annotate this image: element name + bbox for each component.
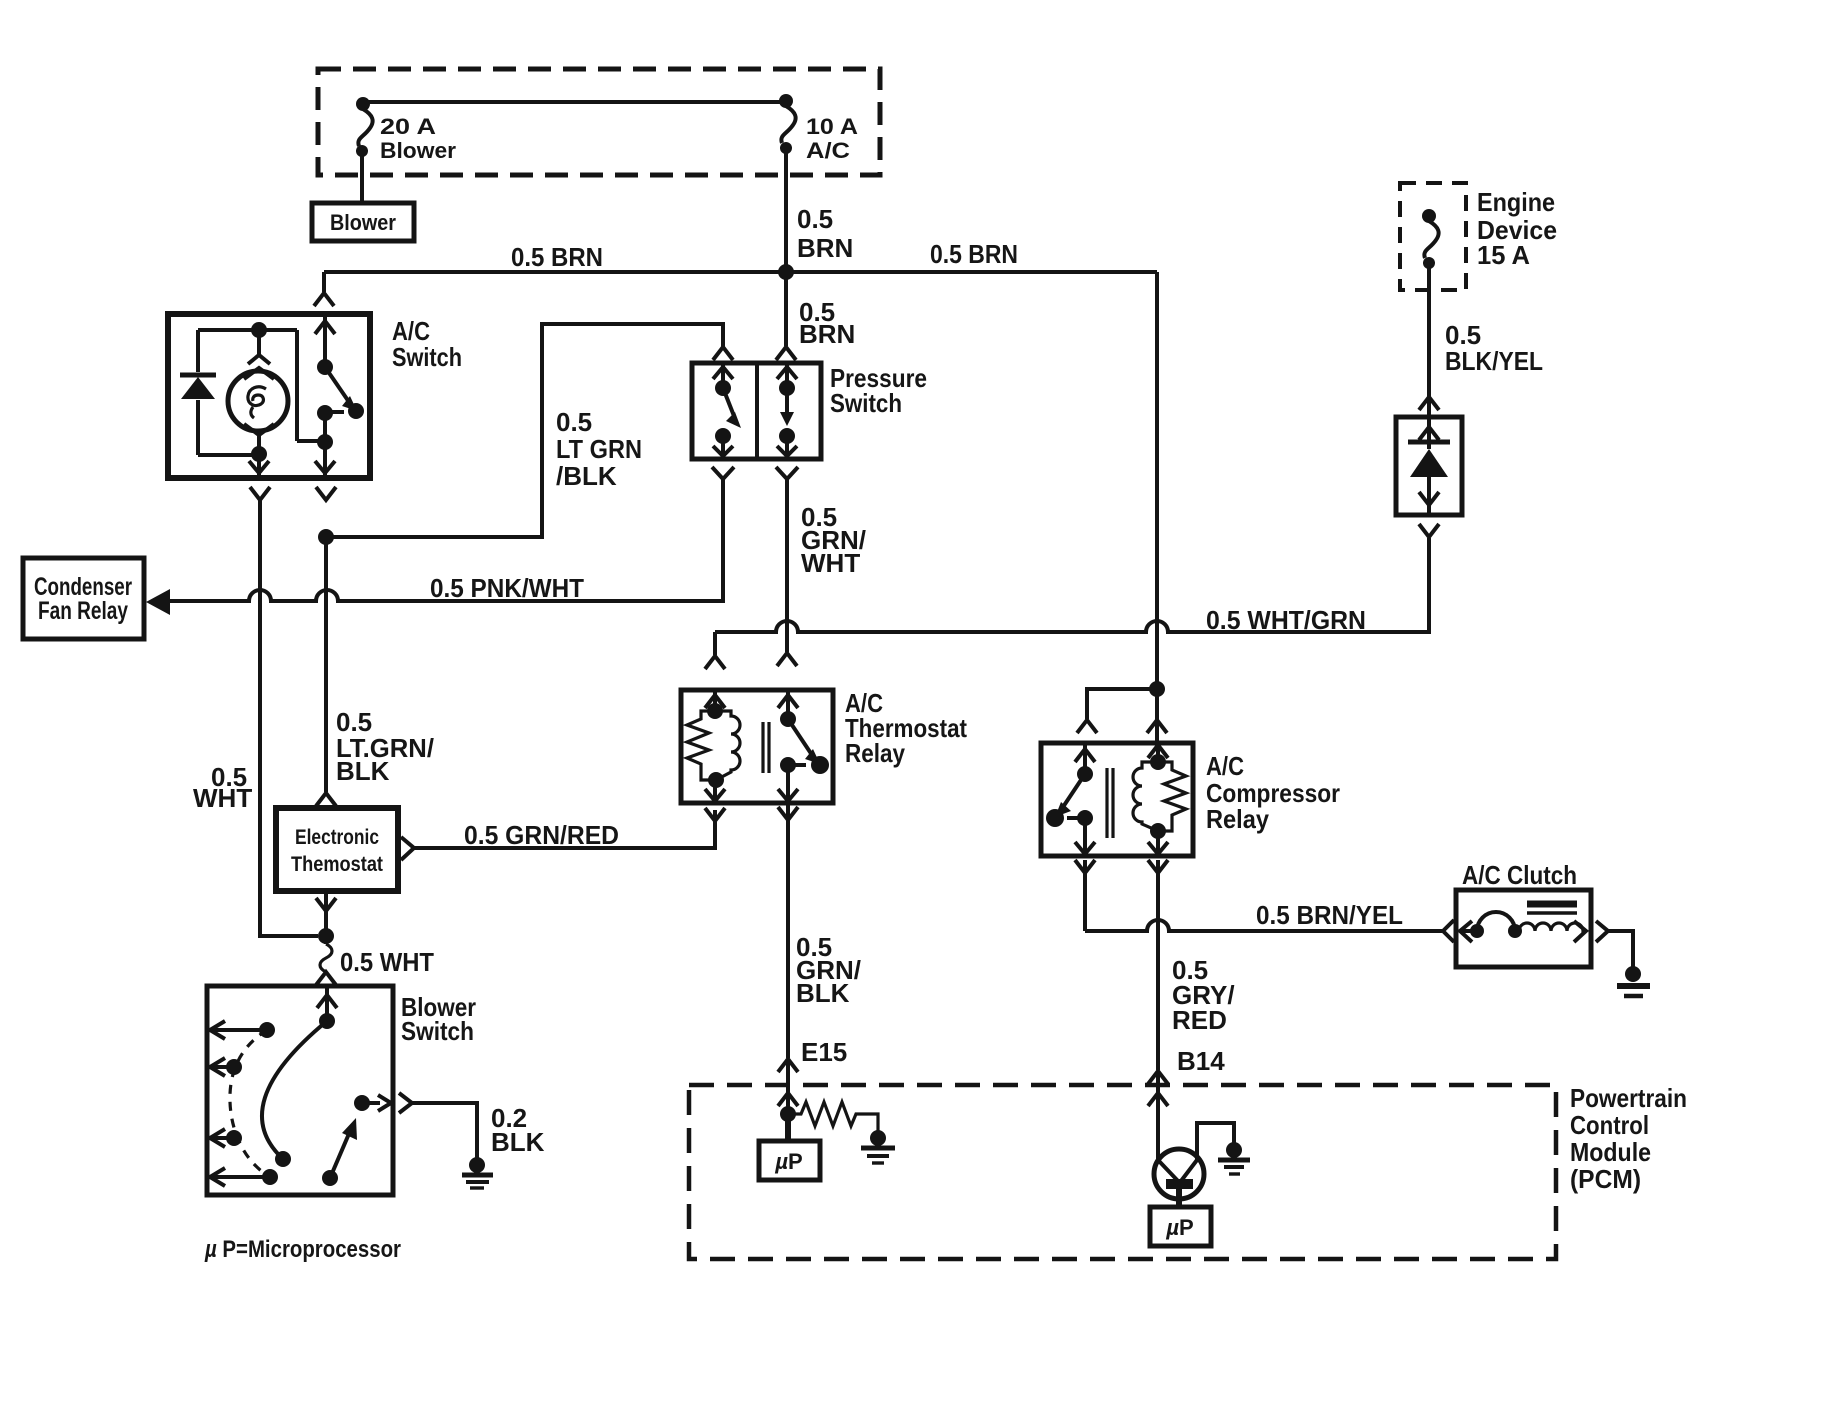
svg-text:BLK: BLK [336, 756, 390, 786]
connector V below pressure switch right [776, 467, 798, 479]
engine device fuse box (dashed) [1400, 183, 1557, 290]
fuse F1 20A Blower [356, 97, 456, 163]
A/C switch pole wire [323, 314, 327, 367]
svg-text:0.5 PNK/WHT: 0.5 PNK/WHT [430, 573, 584, 603]
Blower box [312, 203, 414, 241]
wire GRN/WHT pressure to thermostat relay [785, 479, 789, 652]
svg-text:Engine: Engine [1477, 187, 1555, 217]
lamp filament [248, 387, 266, 418]
svg-text:BLK: BLK [796, 978, 850, 1008]
connector V below thermostat relay left [705, 808, 725, 821]
svg-text:Switch: Switch [401, 1016, 474, 1046]
blower switch output contact [354, 1095, 370, 1111]
connector V below relay right [778, 807, 798, 820]
svg-text:WHT: WHT [193, 783, 252, 813]
blower switch wiper arc [262, 1021, 327, 1159]
svg-text:A/C: A/C [1206, 751, 1244, 781]
wire BRN/YEL to clutch [1085, 860, 1442, 931]
PCM box (dashed) [689, 1083, 1687, 1259]
pressure switch left half [713, 363, 733, 388]
connector chevron B14 [1148, 1071, 1168, 1084]
wire fuse1 to blower [360, 155, 364, 203]
connector V below diode box [1419, 524, 1439, 537]
connector chevron at A/C switch top [314, 293, 334, 306]
wire LT GRN/BLK path to pressure switch [326, 324, 723, 537]
connector chevron thermostat relay top left [705, 656, 725, 669]
connector chevron above blower switch [316, 972, 336, 985]
node BRN junction [778, 264, 794, 280]
svg-text:RED: RED [1172, 1005, 1227, 1035]
svg-text:0.5 GRN/RED: 0.5 GRN/RED [464, 820, 619, 850]
condenser fan relay box [23, 558, 144, 639]
svg-text:0.5 BRN/YEL: 0.5 BRN/YEL [1256, 900, 1403, 930]
node blade end [348, 403, 364, 419]
svg-text:µP: µP [774, 1149, 802, 1174]
relay K2 core [1107, 768, 1113, 838]
svg-text:WHT: WHT [801, 548, 860, 578]
ground blower switch [462, 1157, 493, 1188]
microprocessor box 2 [1150, 1207, 1211, 1246]
connector chevron clutch right [1596, 921, 1608, 942]
svg-text:µP: µP [1165, 1215, 1193, 1240]
svg-text:(PCM): (PCM) [1570, 1164, 1641, 1194]
svg-text:Fan Relay: Fan Relay [38, 597, 128, 625]
wire PNK/WHT horizontal [166, 479, 723, 601]
arrow chevron inside top [315, 321, 335, 334]
wire GRY/RED down to B14 [1156, 860, 1160, 1070]
relay K1 switch [778, 690, 829, 803]
svg-text:Switch: Switch [392, 342, 462, 372]
svg-text:BRN: BRN [799, 319, 855, 349]
node E15 internal [780, 1106, 796, 1122]
lamp bottom wire and node [257, 435, 261, 478]
connector chevron E15 [778, 1059, 798, 1072]
node compressor feed junction [1149, 681, 1165, 697]
wire junction to pressure switch [784, 272, 788, 346]
A/C clutch box [1456, 890, 1591, 967]
svg-text:BLK: BLK [491, 1127, 545, 1157]
wire 0.5 WHT left vertical [260, 500, 318, 936]
switch bottom tick [331, 410, 344, 414]
blower switch pole [317, 986, 337, 1021]
svg-text:Relay: Relay [845, 738, 905, 768]
blower switch blade [330, 1129, 351, 1178]
relay K2 switch [1046, 743, 1095, 856]
wire 0.5 GRN/RED [414, 810, 715, 848]
svg-text:LT GRN: LT GRN [556, 434, 642, 464]
svg-text:B14: B14 [1177, 1046, 1225, 1076]
clutch coil L1 [1460, 912, 1586, 942]
lamp arrow on circle top [244, 368, 274, 379]
arrow chevron inside PCM at B14 [1148, 1093, 1168, 1106]
microprocessor box 1 [759, 1141, 820, 1180]
connector chevron right of blower switch [399, 1093, 412, 1113]
wire fuse2 down [784, 152, 788, 272]
svg-text:A/C Clutch: A/C Clutch [1462, 860, 1577, 890]
svg-text:E15: E15 [801, 1037, 847, 1067]
relay K1 core [763, 722, 769, 773]
A/C thermostat relay box [681, 688, 967, 803]
node junction below A/C switch [318, 529, 334, 545]
node loop meets switch [317, 434, 333, 450]
svg-text:BLK/YEL: BLK/YEL [1445, 346, 1543, 376]
wire bus corner to A/C switch [322, 272, 326, 292]
connector chevron clutch left [1443, 920, 1454, 942]
connector V below box left [250, 487, 270, 500]
svg-text:Themostat: Themostat [291, 853, 383, 876]
relay K1 coil [687, 690, 740, 803]
connector V below relay K2 left [1075, 860, 1095, 873]
diode D2 [1408, 417, 1450, 515]
blower switch position contacts [210, 1021, 278, 1186]
connector chevron at pressure switch top right [776, 347, 796, 360]
A/C switch box [168, 314, 462, 478]
svg-text:20 A: 20 A [380, 114, 436, 139]
arrow chevron inside PCM at E15 [778, 1093, 798, 1106]
arrow into condenser fan relay [146, 589, 170, 615]
wire E15 down [786, 803, 790, 1058]
connector V below box right [316, 487, 336, 500]
svg-text:0.5 BRN: 0.5 BRN [511, 242, 603, 272]
fuse box (dashed) [318, 69, 880, 175]
svg-text:/BLK: /BLK [556, 461, 617, 491]
svg-text:10 A: 10 A [806, 114, 858, 139]
clutch plates [1527, 901, 1577, 908]
wire 0.2 BLK to ground [412, 1103, 477, 1158]
svg-text:0.5 WHT/GRN: 0.5 WHT/GRN [1206, 605, 1366, 635]
wire into PCM [1156, 1071, 1160, 1160]
blower switch box [207, 986, 476, 1195]
connector V below pressure switch left [712, 467, 734, 479]
wire splice squiggle [320, 944, 332, 972]
wire junction to relay terminals [1087, 689, 1157, 743]
connector chevron above diode box [1419, 397, 1439, 410]
wire LT.GRN/BLK down to electronic thermostat [324, 537, 328, 792]
arrow V inside bottom right [315, 461, 335, 473]
svg-text:0.5: 0.5 [797, 204, 833, 234]
wire fuse3 down to diode [1427, 267, 1431, 417]
wire fuse link [363, 100, 786, 104]
ground B14 transistor [1218, 1142, 1250, 1174]
transistor Q1 [1154, 1123, 1234, 1207]
connector chevron above electronic thermostat [316, 793, 336, 806]
svg-text:Module: Module [1570, 1137, 1651, 1167]
relay K2 coil [1133, 743, 1186, 856]
node lamp top [251, 322, 267, 338]
svg-text:Electronic: Electronic [295, 826, 379, 849]
wire WHT/GRN horizontal [715, 538, 1429, 632]
fuse F3 15A [1422, 209, 1439, 269]
svg-text:µ P=Microprocessor: µ P=Microprocessor [204, 1236, 401, 1263]
svg-text:Blower: Blower [330, 210, 396, 235]
ground clutch [1617, 966, 1650, 996]
switch blade [325, 367, 349, 402]
lamp connector chevron top [248, 330, 270, 364]
wire E15 node to microprocessor [785, 1114, 791, 1141]
pressure switch box [692, 363, 927, 459]
diode D1 [180, 373, 216, 378]
connector chevron compressor relay top right [1147, 720, 1167, 733]
node switch bottom [317, 405, 333, 421]
connector chevron right of electronic thermostat [401, 837, 414, 860]
svg-text:Powertrain: Powertrain [1570, 1083, 1687, 1113]
svg-text:Blower: Blower [380, 138, 456, 163]
arrow V inside bottom left [249, 461, 269, 473]
node WHT joins [318, 928, 334, 944]
connector chevron pressure switch top left [713, 347, 733, 360]
node switch top [317, 359, 333, 375]
wire clutch to ground [1608, 931, 1633, 968]
svg-text:0.5 BRN: 0.5 BRN [930, 239, 1018, 269]
connector V below electronic thermostat [316, 898, 336, 911]
wire WHT/GRN left end down to thermostat relay [713, 632, 717, 655]
ground E15 resistor [861, 1130, 895, 1163]
svg-text:0.5 WHT: 0.5 WHT [340, 947, 434, 977]
fuse F2 10A A/C [779, 94, 858, 163]
connector chevron compressor relay top left [1077, 720, 1097, 733]
resistor R1 [788, 1102, 878, 1132]
blower switch dashed arc [230, 1030, 270, 1177]
lamp circle [228, 371, 288, 431]
A/C compressor relay box [1041, 743, 1340, 856]
svg-text:BRN: BRN [797, 233, 853, 263]
switch bottom wire [323, 413, 327, 478]
svg-text:Relay: Relay [1206, 804, 1269, 834]
svg-text:A/C: A/C [806, 138, 850, 163]
wire thermostat to blower switch [324, 891, 328, 944]
svg-text:15 A: 15 A [1477, 240, 1530, 270]
svg-text:0.5: 0.5 [556, 407, 592, 437]
svg-text:Control: Control [1570, 1110, 1649, 1140]
A/C switch internal loop wires [198, 330, 320, 455]
svg-text:Switch: Switch [830, 388, 902, 418]
wire BRN bus right corner down [1155, 272, 1159, 689]
pressure switch right half [777, 363, 797, 388]
connector V below relay K2 right [1148, 860, 1168, 873]
wire BRN bus [324, 270, 1157, 274]
connector chevron thermostat relay top right [777, 653, 797, 666]
lamp arrow on circle bottom [244, 424, 274, 435]
wire into PCM [786, 1059, 790, 1114]
diode box [1396, 417, 1462, 515]
electronic thermostat box [276, 808, 398, 891]
